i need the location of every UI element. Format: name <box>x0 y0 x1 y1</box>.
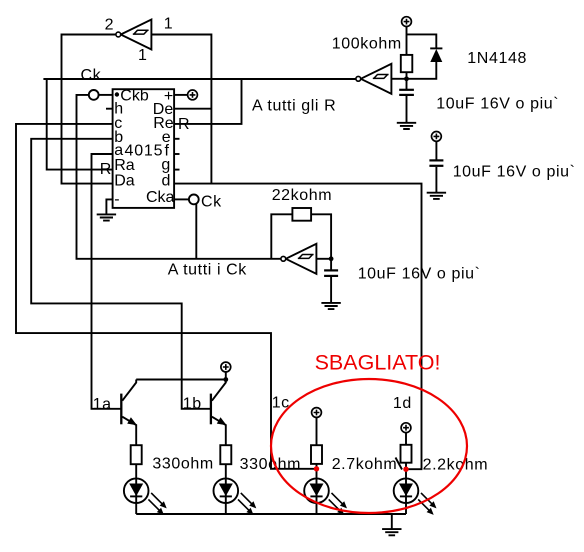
junction red dot 1d <box>403 467 408 472</box>
svg-text:g: g <box>161 156 170 173</box>
svg-text:A tutti gli R: A tutti gli R <box>252 98 336 115</box>
capacitor C3 10uF <box>324 270 338 303</box>
wire: d node up to U2A input <box>151 35 211 184</box>
wire: R2 right leg to oscillator input node <box>311 214 331 270</box>
svg-text:1: 1 <box>138 47 148 64</box>
ground at rail <box>382 529 401 535</box>
wire: collector rail Q1a to Q1b <box>136 379 226 381</box>
wire: b output to Q1b base <box>31 139 211 409</box>
LED D3 <box>214 478 257 515</box>
svg-text:d: d <box>162 172 171 189</box>
svg-text:Cka: Cka <box>146 189 175 206</box>
LED D4 <box>304 478 347 515</box>
pin stub e <box>174 138 179 140</box>
wire: a output to Q1a base <box>92 154 122 409</box>
pin stub Cka <box>174 198 189 200</box>
inverter U2A (Schmitt, pointing left) <box>116 20 151 50</box>
svg-text:SBAGLIATO!: SBAGLIATO! <box>315 351 441 375</box>
stray backslash mark after 2.7kohm <box>396 458 403 470</box>
junction dot collector rail <box>223 377 228 382</box>
wire: U2A output to Da pin <box>62 35 116 184</box>
wire: power flag to collector rail <box>225 372 227 380</box>
svg-text:1a: 1a <box>93 396 112 413</box>
svg-text:R: R <box>178 116 190 133</box>
junction red dot 1c <box>314 466 319 471</box>
power flag at U1 + pin <box>188 90 198 100</box>
wire: cathode rail <box>136 513 406 515</box>
wire: power to resistor and diode branch <box>407 27 437 79</box>
wire: Re pin up to reset line <box>174 79 241 124</box>
svg-text:330ohm: 330ohm <box>240 456 301 473</box>
wire: c output to 1c LED junction <box>16 124 317 469</box>
transistor Q1b <box>211 380 227 446</box>
pin stub g <box>174 169 179 171</box>
svg-text:10uF 16V o piu`: 10uF 16V o piu` <box>358 266 481 283</box>
svg-text:Ckb: Ckb <box>120 88 149 105</box>
wire: R4 to LED D3 to rail <box>225 464 227 514</box>
power flag at 1d <box>401 423 411 433</box>
power flag at 1c <box>312 408 322 418</box>
svg-text:-: - <box>114 191 119 208</box>
svg-text:Ck: Ck <box>81 67 102 84</box>
pin stub h <box>106 108 113 110</box>
svg-text:2.7kohm: 2.7kohm <box>332 456 398 473</box>
resistor R3 330ohm <box>131 445 142 464</box>
svg-text:1: 1 <box>164 16 174 33</box>
LED D2 <box>124 478 167 515</box>
Cka clock bubble <box>189 195 199 205</box>
junction dot POR node <box>404 76 409 81</box>
svg-text:2: 2 <box>105 17 115 34</box>
svg-text:Ck: Ck <box>201 194 222 211</box>
capacitor C2 10uF <box>429 141 443 192</box>
red error ellipse <box>271 379 467 513</box>
wire: clock line A tutti i Ck from Ckb bubble to oscillator <box>77 95 281 259</box>
ground below C1 <box>397 123 416 129</box>
svg-text:1N4148: 1N4148 <box>467 50 527 67</box>
wire: resistor bottom to POR node <box>406 72 408 89</box>
wire: power flag to R6 <box>405 433 407 445</box>
svg-text:10uF 16V o piu`: 10uF 16V o piu` <box>453 164 576 181</box>
svg-text:R: R <box>100 161 112 178</box>
wire: reset line A tutti gli R <box>43 78 356 80</box>
capacitor C1 10uF <box>399 90 414 123</box>
pin stub f <box>174 153 179 155</box>
LED D5 <box>394 478 437 515</box>
wire: R2 left leg to oscillator output <box>271 214 292 258</box>
junction dot oscillator input <box>329 256 334 261</box>
svg-text:10uF 16V o piu`: 10uF 16V o piu` <box>436 96 559 113</box>
transistor Q1a <box>121 380 137 446</box>
wire: reset line down to Ra pin <box>47 79 113 170</box>
ground below C2 <box>427 193 446 199</box>
svg-text:A tutti i Ck: A tutti i Ck <box>168 262 248 279</box>
resistor R6 2.2kohm <box>401 445 412 463</box>
resistor R4 330ohm <box>220 445 231 464</box>
svg-text:2.2kohm: 2.2kohm <box>423 456 489 473</box>
svg-text:22kohm: 22kohm <box>272 187 333 204</box>
ground below C3 <box>321 303 340 309</box>
IC U1 4015 body <box>113 89 175 208</box>
wire: R3 to LED D2 to rail <box>135 464 137 514</box>
wire: R5 to LED D4 to rail <box>316 464 318 514</box>
wire: power flag to R5 <box>316 417 318 445</box>
wire: d pin line to 1d LED junction <box>174 184 421 470</box>
power flag top right <box>402 17 412 27</box>
svg-text:Da: Da <box>114 172 135 189</box>
ground at U1 minus pin <box>97 214 116 220</box>
diode D1 1N4148 <box>430 48 442 62</box>
Ckb clock bubble <box>89 90 99 100</box>
wire: minus pin to ground <box>106 199 112 214</box>
wire: Cka bubble down to clock line <box>195 204 197 259</box>
inverter U2B (Schmitt, pointing left) <box>356 64 407 94</box>
power flag at C2 <box>432 132 442 142</box>
pin stub Ckb <box>99 94 113 96</box>
pin 1 bullet marker <box>115 92 119 96</box>
resistor R2 22kohm <box>292 208 311 221</box>
svg-text:1b: 1b <box>183 396 202 413</box>
wire: De pin to d node vertical <box>174 108 211 110</box>
resistor R1 100kohm <box>401 55 413 72</box>
pin stub + to power flag <box>174 94 188 96</box>
svg-text:100kohm: 100kohm <box>332 35 402 52</box>
wire: R6 to LED D5 to rail <box>405 463 407 514</box>
resistor R5 2.7kohm <box>311 445 322 464</box>
svg-text:1d: 1d <box>393 395 412 412</box>
power flag at Q1b collector <box>221 362 231 372</box>
wire: rail to ground <box>391 514 393 529</box>
svg-text:330ohm: 330ohm <box>152 456 213 473</box>
inverter U2C (Schmitt, pointing left) <box>281 244 331 274</box>
